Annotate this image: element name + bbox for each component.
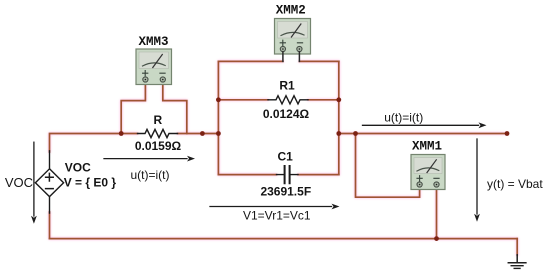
junction bus / R-loop left bbox=[119, 131, 124, 136]
wire R1 branch left lead bbox=[218, 99, 268, 101]
wire R1 branch right lead bbox=[308, 99, 339, 101]
svg-text:23691.5F: 23691.5F bbox=[260, 185, 311, 199]
wire middle box left edge bbox=[217, 61, 219, 174]
svg-text:0.0124Ω: 0.0124Ω bbox=[263, 107, 310, 121]
wire R-loop left riser to XMM3 + terminal bbox=[121, 86, 145, 134]
svg-text:V = { E0 }: V = { E0 } bbox=[64, 176, 117, 190]
wire source bottom to bottom bus bbox=[49, 212, 51, 239]
multimeter XMM2 bbox=[275, 19, 311, 62]
wire middle box top edge left part bbox=[218, 60, 283, 62]
svg-text:XMM2: XMM2 bbox=[276, 4, 306, 18]
wires (net) bbox=[50, 61, 518, 255]
resistor R1 bbox=[268, 96, 308, 104]
wire ground drop bbox=[516, 239, 518, 256]
svg-text:V1=Vr1=Vc1: V1=Vr1=Vc1 bbox=[243, 208, 311, 222]
svg-text:XMM1: XMM1 bbox=[412, 140, 442, 154]
svg-text:R1: R1 bbox=[279, 79, 295, 93]
wire to XMM1 + terminal bbox=[356, 134, 420, 198]
junction R1 left bbox=[216, 97, 221, 102]
svg-text:XMM3: XMM3 bbox=[138, 35, 168, 49]
svg-text:0.0159Ω: 0.0159Ω bbox=[135, 139, 182, 153]
wire right bus u(t) net bbox=[339, 133, 507, 135]
junction right bus / box right edge bbox=[336, 131, 341, 136]
arrow y(t) (down, right side) bbox=[474, 139, 480, 222]
wire R-loop right riser from XMM3 - terminal bbox=[163, 86, 187, 134]
arrow u(t)=i(t) left bbox=[104, 156, 195, 162]
junction right bus end bbox=[505, 131, 510, 136]
junction bottom bus / XMM1 return bbox=[434, 236, 439, 241]
junction R1 right bbox=[336, 97, 341, 102]
svg-text:VOC: VOC bbox=[5, 175, 33, 190]
svg-text:VOC: VOC bbox=[65, 160, 91, 174]
ground bbox=[508, 255, 526, 269]
multimeter XMM1 bbox=[411, 155, 445, 190]
wire resistor R to middle box bbox=[178, 133, 219, 135]
wire box bottom left of C1 bbox=[218, 174, 276, 176]
arrow V1=Vr1=Vc1 bbox=[210, 204, 340, 210]
svg-text:y(t) = Vbat: y(t) = Vbat bbox=[487, 177, 543, 191]
svg-text:u(t)=i(t): u(t)=i(t) bbox=[384, 110, 423, 124]
wire middle box top edge right part bbox=[299, 60, 338, 62]
wire bottom bus bbox=[50, 238, 518, 240]
voltage source VOC (diamond) bbox=[35, 151, 63, 213]
capacitor C1 bbox=[277, 166, 299, 183]
arrow VOC (down, left side) bbox=[31, 142, 37, 224]
wire from XMM1 - terminal to bottom bus bbox=[436, 186, 438, 239]
wire box bottom right of C1 bbox=[298, 174, 339, 176]
arrow u(t)=i(t) right bbox=[363, 122, 487, 128]
resistor R bbox=[138, 129, 178, 137]
junction right bus / XMM1 tap bbox=[353, 131, 358, 136]
svg-text:u(t)=i(t): u(t)=i(t) bbox=[131, 168, 170, 182]
svg-text:R: R bbox=[153, 113, 162, 127]
junction bus / box left edge bbox=[216, 131, 221, 136]
svg-text:C1: C1 bbox=[278, 150, 294, 164]
junction bus mid bbox=[200, 131, 205, 136]
multimeter XMM3 bbox=[136, 49, 172, 85]
pin leads XMM2 bbox=[283, 52, 300, 61]
wire bus to resistor R left lead bbox=[121, 133, 137, 135]
wire top-left corner from source to bus bbox=[50, 134, 122, 153]
wire middle box right edge bbox=[338, 61, 340, 174]
